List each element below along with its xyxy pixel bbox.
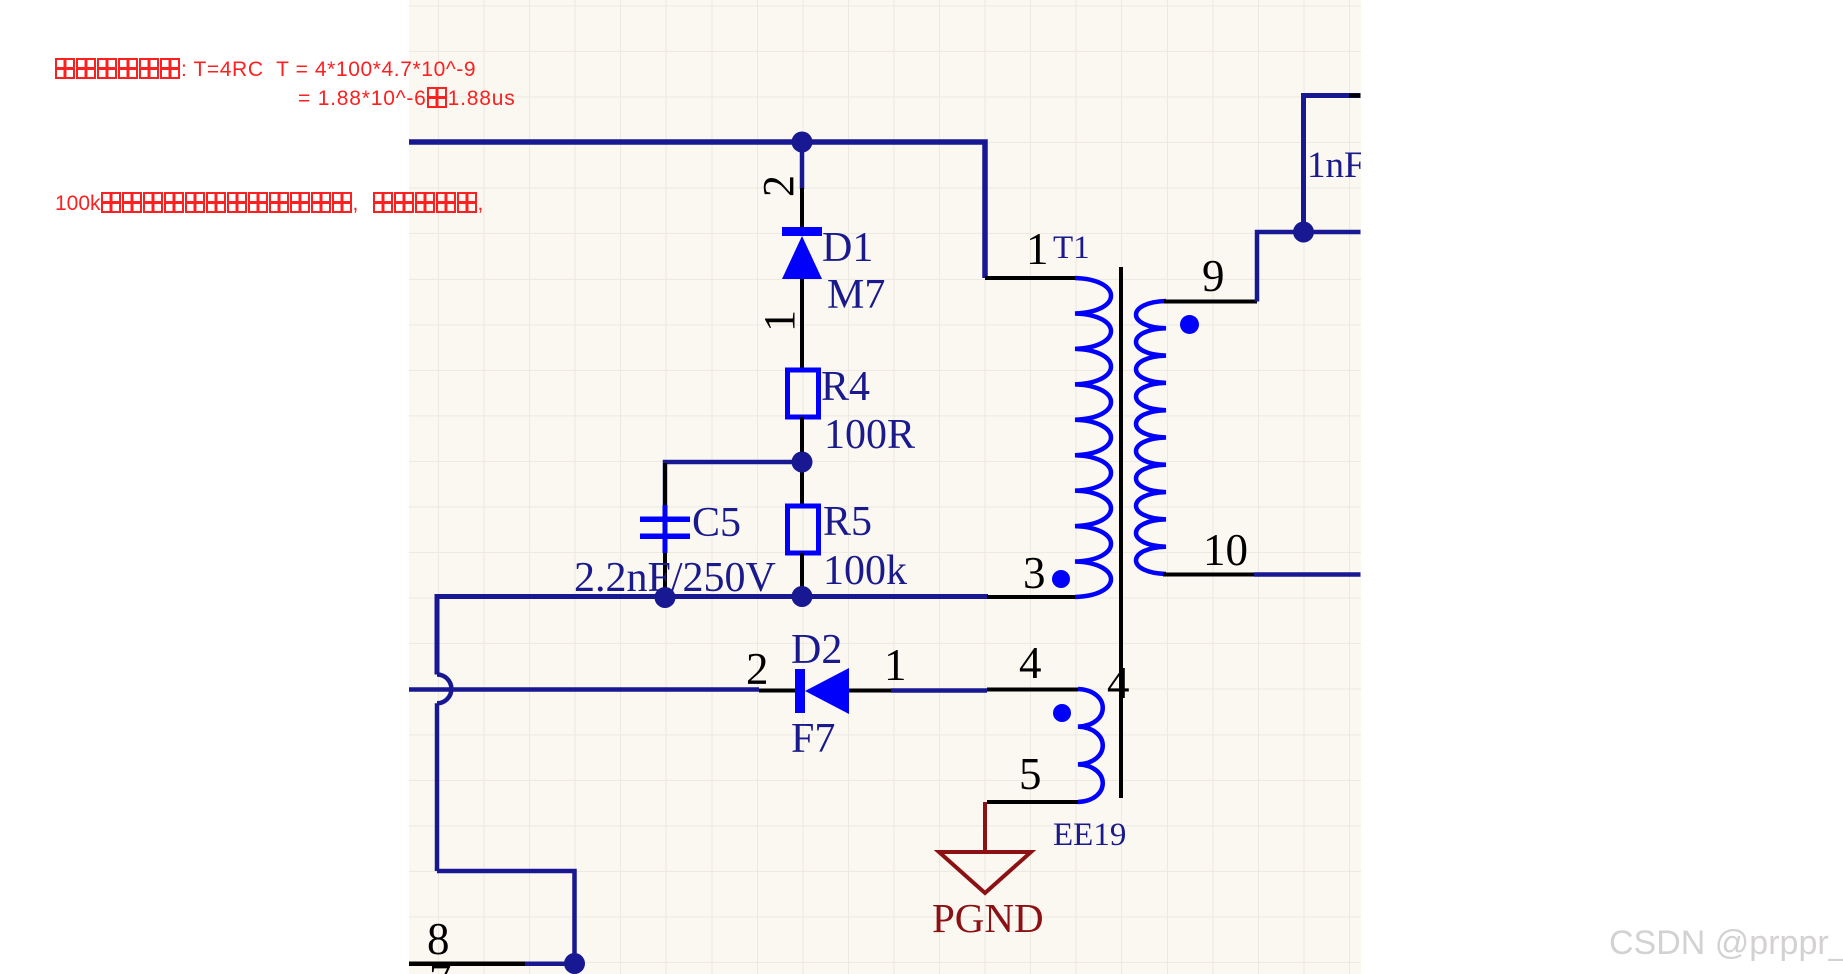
svg-text:100k: 100k [823,548,907,594]
capacitor lead stub (top right, black) [1349,94,1361,98]
annotation line 3 [55,192,498,216]
watermark [1609,924,1843,963]
svg-text:2: 2 [754,175,803,197]
secondary winding (pins 9-10) [1136,301,1166,574]
power port PGND [939,852,1031,893]
wire junction to C5 top [665,462,802,505]
wire pin8 to junction [525,962,575,967]
svg-text:4: 4 [1107,658,1130,708]
primary winding (pins 1-3) [1075,278,1111,597]
D1 pin 2 lead [800,188,804,228]
svg-text:3: 3 [1023,548,1046,598]
wire hop at crossing [437,675,451,704]
junction C5 bottom [655,587,676,608]
primary winding phase dot [1052,570,1070,588]
diode D1 [782,227,822,279]
wire node up and right (top right) [1304,96,1361,233]
junction below R4 [792,452,813,473]
D2 pin 2 lead [759,689,796,693]
C5 top lead (black) [663,463,667,507]
svg-text:1: 1 [755,310,804,332]
T1 pin 3 lead [987,595,1075,599]
wire vertical below hop [435,703,440,871]
T1 pin 1 lead [985,276,1075,280]
pin 8 lead (black) [409,962,525,967]
resistor R5 [788,506,819,553]
wire pin9 up to node [1257,232,1361,302]
PGND wire [983,802,987,852]
svg-text:10: 10 [1203,525,1248,575]
svg-text:1nF: 1nF [1307,145,1365,186]
T1 pin 4 lead [987,688,1078,692]
wire D2 to T1 pin4 [891,688,987,693]
junction R5 bottom [792,586,813,607]
T1 pin 10 lead [1163,573,1254,577]
svg-text:D2: D2 [791,627,842,673]
svg-text:100R: 100R [824,412,915,458]
schematic sheet background [409,0,1361,974]
svg-text:1: 1 [884,640,907,690]
svg-text:R4: R4 [821,364,870,410]
svg-text:1: 1 [1026,224,1049,274]
svg-text:D1: D1 [822,225,873,271]
transformer core [1119,267,1123,798]
wire top net (y=140) [409,142,985,278]
T1 pin 9 lead [1164,300,1257,304]
svg-text:C5: C5 [692,500,741,546]
svg-text:9: 9 [1202,251,1225,301]
lower elbow wire to pin8 junction [437,871,575,964]
T1 pin 5 lead [987,800,1078,804]
svg-text:PGND: PGND [932,895,1044,941]
aux winding phase dot [1053,704,1071,722]
C5 bottom lead (black) [663,553,667,597]
junction top right [1293,222,1314,243]
junction at D1 top [792,132,813,153]
junction bottom left [564,953,585,974]
wire D1 to R4 [800,279,804,370]
aux winding (pins 4-5) [1078,689,1103,802]
wire pin10 to right edge [1254,572,1361,577]
wire stub D1 top [800,142,805,189]
annotation line 1 [55,58,476,82]
wire R5 to bottom net [800,553,804,597]
annotation line 2 [298,87,516,111]
net wire left row (y=689) [409,687,759,692]
svg-text:5: 5 [1019,749,1042,799]
svg-text:4: 4 [1019,638,1042,688]
svg-text:EE19: EE19 [1053,817,1126,853]
wire R4 to junction [800,417,804,506]
resistor R4 [788,370,819,417]
secondary winding phase dot [1180,315,1199,334]
diode D2 [795,668,849,714]
svg-text:F7: F7 [791,716,835,762]
svg-text:7: 7 [429,955,452,974]
svg-text:T1: T1 [1053,230,1090,266]
bottom net wire (y=596) [437,597,988,675]
svg-text:M7: M7 [827,272,885,318]
svg-text:2: 2 [746,644,769,694]
capacitor C5 [640,505,690,553]
D2 pin 1 lead [849,689,891,693]
svg-text:R5: R5 [823,499,872,545]
